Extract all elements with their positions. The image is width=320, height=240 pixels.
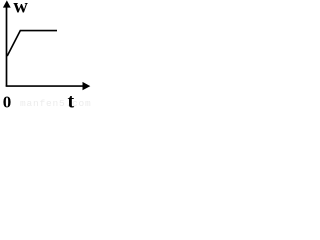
svg-text:w: w (13, 0, 28, 18)
x-axis arrowhead (83, 82, 91, 90)
curve: ramp then constant (7, 31, 57, 56)
svg-text:0: 0 (3, 93, 12, 109)
y-axis (w axis) (6, 4, 8, 87)
svg-text:manfen5.com: manfen5.com (20, 98, 92, 109)
y-axis arrowhead (3, 0, 11, 7)
x-axis (t axis) (6, 85, 84, 87)
svg-text:t: t (68, 91, 75, 109)
